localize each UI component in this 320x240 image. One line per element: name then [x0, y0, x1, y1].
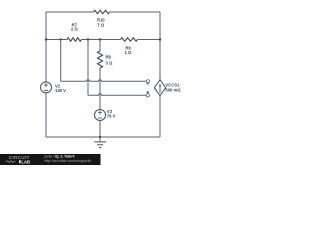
minus control polarity mark: [147, 83, 149, 85]
wire middle row: R9 right lead to right rail: [138, 39, 161, 41]
resistor R7: [67, 22, 81, 41]
wire R8 top lead from middle row: [99, 40, 101, 52]
controlled current source VCCS1: [154, 80, 181, 96]
wire to VCCS1 plus control terminal (hops over x=100 vertical): [88, 94, 146, 96]
wire right rail lower: VCCS1 bottom down to bottom corner: [159, 96, 161, 137]
svg-text:LAB: LAB: [21, 159, 30, 164]
wire top net: left corner to R10 left lead: [46, 11, 94, 13]
resistor R10: [94, 10, 110, 27]
svg-text:2 Ω: 2 Ω: [71, 27, 78, 32]
junction: middle row at node-B vertical: [87, 38, 89, 40]
wire to VCCS1 minus control terminal (hops over x=88 and x=100 verticals): [61, 80, 147, 82]
wire V3 bottom lead to bottom net: [99, 120, 101, 137]
junction: middle row at sense-tap vertical: [60, 38, 62, 40]
wire left rail upper: top corner down to V2 plus terminal: [45, 12, 47, 82]
VCCS1 plus control terminal: [146, 91, 149, 97]
wire middle row: R7 right lead to R9 left lead: [81, 39, 120, 41]
wire bottom net: left corner to right corner: [46, 136, 160, 138]
wire left rail lower: V2 minus terminal down to bottom corner: [45, 93, 47, 137]
wire node-B vertical from middle row down: [87, 40, 89, 96]
V3 minus polarity mark: [98, 117, 102, 119]
resistor R9: [121, 38, 138, 55]
voltage source V3: [95, 109, 116, 121]
svg-text:76 V: 76 V: [107, 113, 116, 118]
junction: middle row at left rail: [45, 38, 47, 40]
ground: [94, 137, 106, 148]
VCCS1 minus control terminal: [146, 80, 149, 84]
junction: middle row at right rail: [159, 38, 161, 40]
watermark bar: [0, 154, 101, 165]
wire middle row: left rail to R7 left lead: [46, 39, 67, 41]
V2 minus polarity mark: [44, 89, 48, 91]
VCCS1 arrow (current direction up): [159, 86, 161, 93]
svg-text:http://circuitlab.com/c/mqpax4: http://circuitlab.com/c/mqpax4b: [45, 159, 92, 163]
voltage source V2: [41, 82, 67, 93]
svg-text:1 Ω: 1 Ω: [125, 50, 132, 55]
V2 plus polarity mark: [44, 83, 48, 87]
V3 plus polarity mark: [98, 111, 102, 115]
wire top net: R10 right lead to right corner: [110, 11, 161, 13]
svg-text:R8: R8: [106, 55, 112, 60]
wire R8 bottom lead down to V3 top (crossed by both control stubs): [99, 68, 101, 110]
logo battery icon: [19, 160, 21, 163]
plus control polarity mark: [147, 91, 149, 93]
svg-text:3 Ω: 3 Ω: [106, 60, 113, 65]
wire right rail upper: top corner down to VCCS1 top: [159, 12, 161, 80]
junction: V3 lead and ground at bottom net: [99, 136, 101, 138]
logo resistor squiggle: [6, 161, 16, 163]
wire sense-tap vertical from middle row down: [60, 40, 62, 82]
junction: middle row at R8 top: [99, 38, 101, 40]
resistor R8: [98, 51, 113, 68]
svg-text:500 mΩ: 500 mΩ: [165, 88, 181, 93]
svg-text:126 V: 126 V: [55, 88, 66, 93]
svg-text:7 Ω: 7 Ω: [97, 23, 104, 28]
